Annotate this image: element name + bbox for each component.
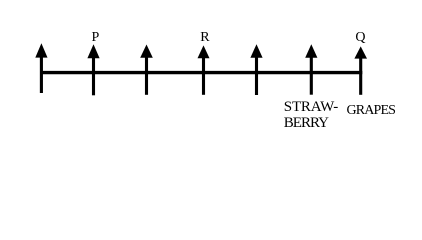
arrow 2 (below label P) [87, 44, 99, 95]
arrow 6 (above STRAW-BERRY) [305, 44, 317, 94]
arrow 3 [140, 45, 153, 95]
arrow 5 [250, 44, 262, 95]
svg-text:GRAPES: GRAPES [347, 103, 396, 118]
arrow 4 (below label R) [198, 45, 210, 94]
number line (horizontal axis) [40, 71, 362, 74]
svg-text:STRAW-: STRAW- [284, 99, 338, 115]
svg-text:P: P [92, 30, 100, 45]
svg-text:BERRY: BERRY [284, 115, 329, 131]
svg-text:R: R [200, 30, 210, 45]
arrow 1 (leftmost tick arrow) [35, 43, 47, 93]
svg-text:Q: Q [355, 30, 365, 45]
arrow 7 (below label Q, above GRAPES) [354, 46, 367, 94]
